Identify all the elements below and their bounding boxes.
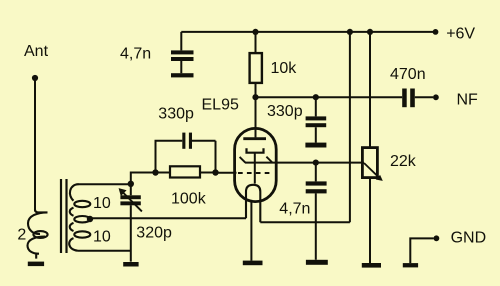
potentiometer 22k [362, 148, 377, 178]
wire coil bottom to ground lead [78, 250, 131, 252]
resistor 100k [156, 172, 216, 174]
node rail 10k [252, 29, 258, 35]
variable capacitor 320p [130, 184, 132, 262]
svg-text:330p: 330p [158, 105, 194, 122]
ground (tuning cap) [123, 262, 138, 267]
tube g2 wings [240, 157, 273, 163]
wire secondary top to tuning node [78, 183, 131, 185]
tube cathode ground lead [250, 200, 252, 261]
svg-text:330p: 330p [267, 103, 303, 120]
node grid right [212, 169, 218, 175]
node rail pot drop [367, 29, 373, 35]
capacitor 4,7n g2 [315, 163, 317, 260]
GND terminal [434, 235, 440, 241]
capacitor 4,7n supply [180, 32, 182, 73]
node anode NF junction [252, 94, 258, 100]
ground (cathode) [243, 261, 263, 266]
node NF 330p junction [313, 94, 319, 100]
node rail heater drop [347, 29, 353, 35]
ground (4,7n supply) [171, 73, 194, 77]
node center tap [87, 216, 93, 222]
svg-text:470n: 470n [390, 66, 426, 83]
wire grid lead to tube [216, 172, 237, 174]
tube anode bar [243, 137, 266, 140]
node tuning junction [128, 181, 134, 187]
tube g3 cup [247, 148, 264, 152]
svg-text:320p: 320p [136, 224, 172, 241]
capacitor 470n [402, 89, 407, 108]
svg-text:GND: GND [451, 229, 487, 246]
ground (GND terminal) [403, 263, 418, 267]
resistor 10k [255, 32, 257, 97]
wire NF line [256, 96, 403, 98]
tube heater [246, 185, 260, 222]
svg-text:10: 10 [93, 228, 111, 245]
svg-text:NF: NF [457, 92, 479, 109]
tube anode lead [255, 97, 257, 137]
antenna terminal node [32, 75, 38, 81]
wire heater drop from rail [349, 32, 351, 222]
node g2 4,7n junction [313, 160, 319, 166]
NF terminal [433, 94, 439, 100]
svg-text:22k: 22k [390, 153, 417, 170]
wire GND terminal to ground [410, 238, 433, 263]
wire tuning node up to grid node [131, 173, 156, 185]
node grid left [152, 169, 158, 175]
transformer core [61, 179, 67, 253]
tube g1 dashed grid [238, 172, 270, 174]
tube EL95 envelope [235, 128, 277, 201]
transformer secondary coil [69, 184, 78, 251]
ground (4,7n g2) [306, 260, 328, 265]
wire antenna down-lead [34, 78, 36, 212]
+6V terminal [433, 29, 439, 35]
wire center tap to heater left leg [90, 217, 246, 219]
svg-text:2: 2 [17, 226, 26, 243]
wire pot drop from rail [369, 32, 371, 148]
svg-text:100k: 100k [171, 191, 207, 208]
svg-text:EL95: EL95 [202, 97, 239, 114]
svg-text:4,7n: 4,7n [120, 45, 151, 62]
wire heater right [260, 221, 350, 223]
ground (primary) [28, 262, 44, 267]
transformer primary coil (2 turns) [28, 210, 48, 259]
capacitor 330p anode [315, 97, 317, 142]
svg-text:Ant: Ant [24, 43, 49, 60]
svg-text:+6V: +6V [446, 25, 475, 42]
svg-text:10k: 10k [271, 60, 298, 77]
svg-text:4,7n: 4,7n [279, 201, 310, 218]
ground (pot) [362, 263, 381, 268]
tube g2 line with wire to pot wiper [245, 162, 364, 164]
top supply rail [181, 31, 435, 33]
tube cathode lead inner [254, 153, 256, 184]
capacitor 330p grid [156, 141, 216, 173]
svg-text:10: 10 [93, 195, 111, 212]
